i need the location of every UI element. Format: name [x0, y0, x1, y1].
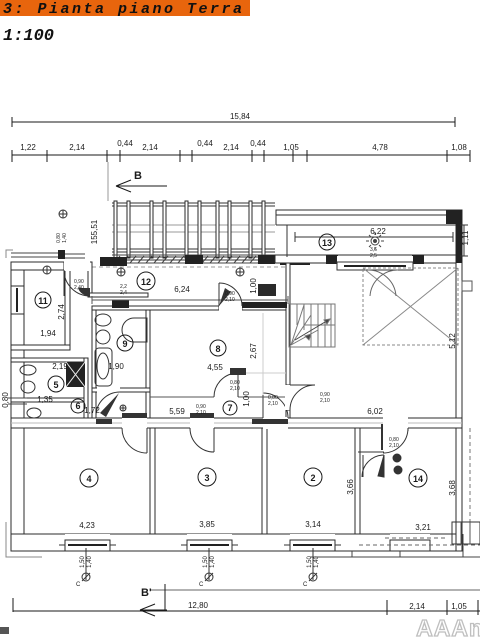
- svg-text:C: C: [76, 582, 81, 588]
- svg-text:3,66: 3,66: [346, 479, 355, 495]
- svg-text:11: 11: [38, 296, 48, 306]
- svg-text:2,74: 2,74: [57, 304, 66, 320]
- svg-text:3: 3: [204, 473, 209, 483]
- svg-text:2,10: 2,10: [196, 410, 206, 416]
- svg-text:2,14: 2,14: [69, 143, 85, 152]
- svg-text:5,12: 5,12: [448, 333, 457, 349]
- svg-text:1,00: 1,00: [249, 278, 258, 294]
- svg-text:4,78: 4,78: [372, 143, 388, 152]
- svg-text:2,4: 2,4: [120, 290, 127, 296]
- svg-text:1,40: 1,40: [87, 556, 93, 568]
- svg-text:8: 8: [215, 344, 220, 354]
- svg-text:4: 4: [86, 474, 91, 484]
- svg-text:14: 14: [413, 474, 423, 484]
- svg-text:13: 13: [322, 238, 332, 248]
- svg-text:2,10: 2,10: [230, 386, 240, 392]
- svg-text:0,44: 0,44: [250, 139, 266, 148]
- svg-text:0,44: 0,44: [117, 139, 133, 148]
- svg-text:1,72: 1,72: [84, 406, 100, 415]
- svg-text:1,05: 1,05: [451, 602, 467, 611]
- svg-text:6,02: 6,02: [367, 407, 383, 416]
- svg-text:3,21: 3,21: [415, 523, 431, 532]
- svg-text:C: C: [303, 582, 308, 588]
- svg-text:1,00: 1,00: [242, 391, 251, 407]
- svg-text:2,40: 2,40: [74, 285, 84, 291]
- svg-text:4,23: 4,23: [79, 521, 95, 530]
- svg-text:2,5: 2,5: [370, 253, 377, 259]
- svg-text:B': B': [141, 587, 152, 599]
- svg-text:15,84: 15,84: [230, 112, 251, 121]
- svg-text:6,22: 6,22: [370, 227, 386, 236]
- svg-text:9: 9: [122, 339, 127, 349]
- svg-text:2: 2: [310, 473, 315, 483]
- svg-text:1,08: 1,08: [451, 143, 467, 152]
- svg-text:C: C: [199, 582, 204, 588]
- svg-text:155,51: 155,51: [90, 219, 99, 244]
- svg-text:2,14: 2,14: [142, 143, 158, 152]
- svg-text:1,50: 1,50: [203, 556, 209, 568]
- svg-text:1,40: 1,40: [62, 233, 68, 243]
- svg-text:1,94: 1,94: [40, 329, 56, 338]
- svg-text:2,10: 2,10: [320, 398, 330, 404]
- svg-text:2,10: 2,10: [268, 401, 278, 407]
- svg-text:1,90: 1,90: [108, 362, 124, 371]
- svg-text:5: 5: [53, 380, 58, 390]
- svg-text:2,10: 2,10: [389, 443, 399, 449]
- svg-text:6: 6: [75, 401, 80, 411]
- svg-text:1,40: 1,40: [210, 556, 216, 568]
- svg-text:3,68: 3,68: [448, 480, 457, 496]
- svg-text:0,80: 0,80: [1, 392, 10, 408]
- svg-text:1,22: 1,22: [20, 143, 36, 152]
- svg-text:B: B: [134, 170, 142, 182]
- svg-text:12,80: 12,80: [188, 601, 209, 610]
- svg-text:2,67: 2,67: [249, 343, 258, 359]
- svg-text:3,85: 3,85: [199, 520, 215, 529]
- svg-text:1,50: 1,50: [80, 556, 86, 568]
- svg-text:6,24: 6,24: [174, 285, 190, 294]
- svg-text:2,19: 2,19: [52, 362, 68, 371]
- svg-text:1,11: 1,11: [461, 230, 470, 246]
- svg-text:7: 7: [227, 403, 232, 413]
- svg-text:2,14: 2,14: [223, 143, 239, 152]
- svg-text:12: 12: [141, 277, 151, 287]
- svg-text:0,44: 0,44: [197, 139, 213, 148]
- svg-text:1,05: 1,05: [283, 143, 299, 152]
- svg-text:5,59: 5,59: [169, 407, 185, 416]
- svg-text:3,14: 3,14: [305, 520, 321, 529]
- svg-text:4,55: 4,55: [207, 363, 223, 372]
- svg-text:1,35: 1,35: [37, 395, 53, 404]
- svg-text:2,14: 2,14: [409, 602, 425, 611]
- svg-text:2,10: 2,10: [225, 297, 235, 303]
